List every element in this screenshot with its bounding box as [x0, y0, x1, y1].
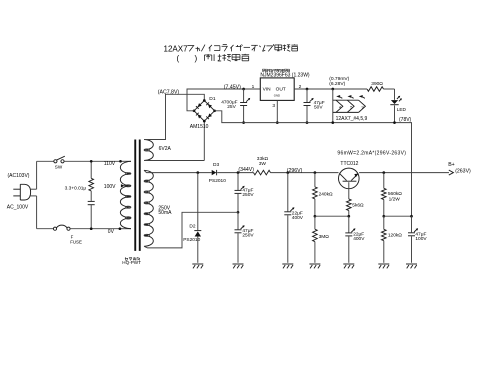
transformer T1 primary winding: [120, 161, 131, 228]
transistor Q1 TTC012: [339, 168, 360, 189]
heater filament 5 of 12AX7: [347, 100, 354, 112]
junction bridge bottom corner: [203, 120, 206, 123]
svg-text:OUT: OUT: [276, 87, 286, 93]
svg-text:D2: D2: [189, 223, 195, 229]
junction primary 110V tap: [119, 160, 122, 163]
svg-text:(6.28V): (6.28V): [329, 81, 345, 87]
ground under 47uF 100V: [406, 263, 417, 265]
resistor 390 ohm: [367, 87, 384, 92]
svg-text:GND: GND: [274, 93, 280, 97]
snubber capacitor: [88, 200, 95, 202]
capacitor 47uF 250V upper: [237, 173, 239, 190]
wire 250V winding bottom to cap midpoint: [144, 212, 238, 248]
svg-text:TTC012: TTC012: [340, 161, 358, 167]
svg-text:6V2A: 6V2A: [159, 146, 172, 152]
svg-text:D1: D1: [209, 96, 216, 102]
heater bus bottom: [333, 111, 359, 113]
capacitor 22uF 400V at 296V node: [287, 173, 289, 212]
svg-text:250V: 250V: [242, 192, 254, 198]
resistor 33k 3W: [254, 170, 271, 175]
svg-text:(344V): (344V): [238, 167, 254, 173]
svg-text:AC_100V: AC_100V: [7, 205, 29, 211]
capacitor 47uF 100V: [411, 216, 413, 232]
junction 22uF tap at 296V: [286, 171, 289, 174]
regulator U1 NJM2396F63 box: [260, 78, 294, 101]
junction divider node right: [410, 215, 413, 218]
heater filament 4 of 12AX7: [336, 100, 343, 112]
svg-text:NJM2396F63 (1.23W): NJM2396F63 (1.23W): [260, 73, 310, 79]
svg-text:): ): [195, 54, 198, 63]
diode D2 PS2010 clamp: [197, 173, 199, 231]
svg-text:25V: 25V: [227, 104, 236, 110]
junction 560k tap: [382, 171, 385, 174]
svg-text:D3: D3: [213, 162, 219, 168]
svg-text:560kΩ: 560kΩ: [388, 191, 402, 197]
wire to LED: [384, 88, 395, 90]
wire 6V winding bottom to bridge AC input: [144, 121, 204, 160]
svg-text:PS2010: PS2010: [183, 237, 200, 243]
svg-text:96mW=2.2mA*(296V-263V): 96mW=2.2mA*(296V-263V): [337, 151, 406, 157]
svg-text:3MΩ: 3MΩ: [319, 234, 330, 240]
svg-text:100V: 100V: [415, 236, 427, 242]
ground under 120k: [378, 263, 389, 265]
junction divider node left: [382, 215, 385, 218]
svg-text:(263V): (263V): [455, 168, 471, 174]
svg-text:1: 1: [252, 84, 255, 90]
junction bridge right corner: [213, 109, 216, 112]
snubber resistor: [90, 161, 92, 178]
svg-text:LED: LED: [397, 107, 407, 112]
wire bridge minus output to return rail: [215, 111, 412, 216]
transformer secondary 6V 2A winding: [144, 140, 153, 161]
svg-text:50V: 50V: [314, 104, 323, 110]
svg-text:3.3+0.01μ: 3.3+0.01μ: [65, 186, 87, 192]
svg-text:(78V): (78V): [399, 117, 412, 123]
label transformer type Softon HQ-PWT: [125, 257, 128, 259]
svg-text:(: (: [177, 54, 180, 63]
svg-text:(AC103V): (AC103V): [8, 173, 30, 179]
svg-text:12AX7_#4,5,9: 12AX7_#4,5,9: [336, 116, 368, 122]
fuse F: [53, 227, 56, 230]
wire AC top line to switch: [37, 160, 54, 162]
junction snubber bottom: [90, 227, 93, 230]
svg-text:FUSE: FUSE: [70, 239, 82, 244]
resistor 240k: [314, 173, 316, 187]
capacitor 22uF 400V at base node: [348, 216, 350, 232]
svg-text:5k6Ω: 5k6Ω: [352, 203, 364, 209]
svg-text:390Ω: 390Ω: [371, 81, 383, 87]
junction D2 tap: [196, 171, 199, 174]
svg-text:100V: 100V: [104, 184, 116, 190]
svg-text:400V: 400V: [353, 236, 365, 242]
svg-text:PS2010: PS2010: [209, 178, 226, 184]
bridge diode bottom-left: [198, 114, 202, 118]
switch SW: [54, 160, 57, 163]
junction snubber top: [90, 160, 93, 163]
svg-text:3W: 3W: [259, 161, 267, 167]
svg-text:SW: SW: [55, 165, 63, 170]
wire AC top line switch to transformer: [64, 160, 120, 162]
heater filament 9 of 12AX7: [359, 100, 366, 112]
transistor base lead: [348, 182, 350, 199]
wire AC bottom line to fuse: [37, 228, 54, 230]
svg-text:(AC7.8V): (AC7.8V): [158, 90, 180, 96]
ground under base cap: [343, 263, 354, 265]
resistor 120k: [383, 216, 385, 229]
svg-text:B+: B+: [448, 162, 455, 168]
junction base node left: [314, 215, 317, 218]
ground under 3M: [309, 263, 320, 265]
wire 33k to transistor collector: [271, 172, 339, 174]
wire emitter to B+ output: [359, 172, 449, 174]
wire 6V winding top to bridge AC input: [144, 94, 204, 139]
svg-text:3: 3: [272, 103, 275, 109]
ground under cap stack: [233, 263, 244, 265]
diode D3 PS2010: [212, 170, 217, 175]
svg-text:AM1510: AM1510: [190, 124, 209, 130]
wire base node: [315, 215, 349, 217]
bridge rectifier D1 diamond: [194, 101, 215, 122]
resistor 3M: [314, 216, 316, 229]
svg-text:250V: 250V: [242, 233, 254, 239]
junction base node right: [347, 215, 350, 218]
capacitor 4700uF 25V: [242, 88, 245, 91]
svg-text:(7.45V): (7.45V): [224, 84, 241, 90]
wire 6.3V rail: [294, 88, 367, 90]
B+ output arrow: [449, 170, 454, 175]
junction 344V node: [237, 171, 240, 174]
svg-text:12AX7: 12AX7: [164, 44, 189, 53]
LED: [394, 89, 396, 100]
wire bridge plus output to 7.45V rail: [187, 89, 260, 111]
svg-text:0V: 0V: [108, 229, 115, 235]
svg-text:VIN: VIN: [263, 87, 272, 93]
wire 250V winding top to D3: [144, 170, 212, 172]
AC plug: [20, 184, 30, 200]
svg-text:120kΩ: 120kΩ: [388, 233, 402, 239]
ground under 22uF 400V: [282, 263, 293, 265]
wire plug stubs: [31, 188, 37, 190]
svg-text:400V: 400V: [292, 215, 304, 221]
svg-text:(296V): (296V): [287, 168, 303, 174]
bridge diode bottom-right: [208, 113, 212, 117]
ground under D2: [192, 263, 203, 265]
wire divider node: [384, 215, 412, 217]
junction cap midpoint node: [237, 211, 240, 214]
svg-text:1/2W: 1/2W: [389, 196, 401, 202]
wire AC bottom line fuse to transformer: [70, 228, 120, 230]
junction bridge top corner: [203, 99, 206, 102]
primary 100V tap stub with arrow: [124, 185, 131, 187]
bridge diode top-right: [208, 104, 212, 108]
capacitor 47uF 50V: [306, 88, 309, 91]
bridge diode top-left: [198, 103, 202, 107]
heater supply left drop: [331, 88, 334, 91]
svg-text:110V: 110V: [104, 161, 116, 167]
capacitor 47uF 250V lower: [237, 212, 239, 229]
transformer secondary 250V winding: [144, 170, 153, 246]
label regulator japanese (ultra low dropout regulator): [261, 69, 263, 72]
svg-text:50mA: 50mA: [158, 210, 172, 216]
resistor 560k 1/2W: [383, 173, 385, 189]
heater bus top: [333, 99, 359, 101]
svg-text:HQ-PWT: HQ-PWT: [122, 260, 141, 265]
svg-text:240kΩ: 240kΩ: [319, 192, 333, 198]
resistor 5k6 in base: [347, 199, 352, 211]
transformer core: [134, 140, 136, 251]
junction 240k tap: [314, 171, 317, 174]
junction primary 0V tap: [119, 227, 122, 230]
junction bridge left corner: [193, 109, 196, 112]
